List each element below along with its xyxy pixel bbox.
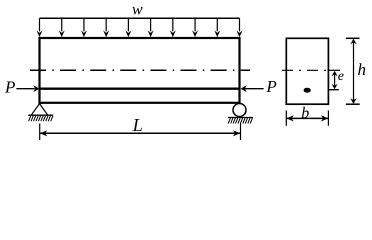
svg-text:L: L: [132, 115, 143, 135]
svg-text:h: h: [358, 60, 367, 79]
svg-text:w: w: [132, 1, 143, 18]
svg-text:b: b: [301, 105, 309, 122]
svg-text:e: e: [338, 69, 344, 84]
svg-text:P: P: [4, 78, 15, 97]
svg-text:P: P: [265, 77, 276, 96]
